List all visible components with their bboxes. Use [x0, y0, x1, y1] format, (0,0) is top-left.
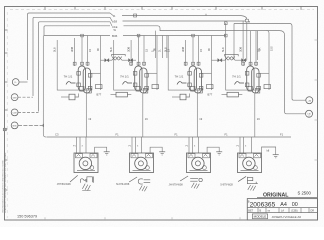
relay K2 pin box lower-left 85: [133, 83, 137, 87]
connector plug circle D.: [12, 79, 19, 86]
relay K3 right vertical wire: [211, 36, 213, 91]
relay K3 pin box lower-left 85: [188, 83, 192, 87]
relay K4 right vertical wire: [268, 60, 270, 90]
relay K1 bottom pin box left: [80, 87, 85, 92]
relay K3 coil curve symbol: [177, 82, 187, 85]
relay K2 right vertical wire: [156, 36, 158, 91]
relay K3 pin box upper-right 30: [199, 74, 203, 78]
pump M4 feed wires from bus: [239, 137, 241, 153]
connector plug circle B36: [11, 122, 18, 129]
relay K4 top pin squares: [242, 62, 245, 65]
relay K3 feed wire right: [198, 36, 200, 67]
relay K4 feed wire right: [255, 31, 257, 66]
title block frame: [247, 199, 317, 220]
pump M4 terminal box left: [239, 154, 246, 158]
pump M3 solenoid symbol: [190, 179, 198, 182]
border zone ticks left: [5, 29, 8, 31]
pump M1 solenoid symbol: [81, 177, 94, 183]
relay K4 coil curve symbol: [235, 82, 245, 85]
relay K1 feed wire left: [74, 38, 76, 66]
bus wire D. : right run to corner: [122, 16, 247, 20]
pump M4 ground branch: [262, 147, 276, 154]
relay K3 coil lobe left: [189, 66, 196, 91]
relay K2 pin box upper-left 86: [133, 72, 137, 76]
relay K3 pin box lower-right 87: [199, 86, 203, 90]
bus wire B36 : left riser: [44, 26, 110, 36]
relay K4 stub to right vertical: [260, 72, 270, 74]
lamp circle L30: [306, 110, 313, 117]
relay K1 stub to right vertical: [91, 72, 101, 74]
relay K3 coil lobe right: [194, 68, 201, 93]
bowtie connector: [105, 59, 109, 62]
junction box right of D arc: [245, 19, 248, 22]
relay K4 pin box upper-right 30: [257, 74, 261, 78]
relay K2 pin box lower-right 87: [145, 86, 149, 90]
relay K4 drop wire to pump: [254, 93, 256, 137]
bus wire C1E : left riser: [39, 22, 111, 112]
pump M3 motor inner circle: [195, 161, 200, 166]
pump M1 ground branch: [95, 147, 107, 153]
wire: [122, 59, 128, 61]
relay K3 stub to right vertical: [202, 72, 212, 74]
wire: [109, 59, 112, 61]
border zone ticks bottom: [44, 217, 46, 220]
relay K3 top pin squares: [184, 62, 187, 65]
relay K1 coil lobe right: [83, 68, 90, 93]
wire: [101, 59, 105, 61]
relay K4 pin box lower-right 87: [257, 86, 261, 90]
pump M2 actuator arrow: [129, 177, 137, 182]
relay K4 bottom pin box right: [255, 89, 259, 94]
pump M3 ground branch: [207, 147, 219, 153]
pump M4 housing box: [238, 153, 262, 173]
bus wire b38 : left riser: [33, 17, 110, 96]
pump M3 ground symbol: [216, 151, 222, 153]
small component box with leads (C) group3: [222, 94, 228, 96]
connector plug circle C1E: [11, 109, 18, 116]
riser at x=234 to terminal chain: [233, 24, 235, 60]
pump M4 actuator arrow: [238, 176, 246, 181]
relay K4 coil lobe left: [247, 66, 254, 91]
pump M3 baseline inside: [190, 170, 208, 172]
branch drop 3A: [257, 31, 259, 60]
wire: [222, 59, 225, 61]
bus wire B36 left run y=35.5: [44, 35, 110, 37]
pump M4 aux circle: [254, 166, 258, 170]
relay K2 feed wire left: [130, 40, 132, 66]
pump M4 ground symbol: [273, 154, 279, 156]
junction box on D wire: [134, 14, 137, 17]
pump M4 hatch marks: [248, 185, 256, 191]
pump M3 housing box: [187, 153, 211, 173]
pump M1 baseline inside: [77, 170, 95, 172]
relay K3 terminal box 81: [207, 85, 214, 89]
relay K1 connector symbol below: [61, 96, 69, 98]
pump M1 ground symbol: [104, 151, 110, 153]
pump M3 terminal box right: [203, 154, 210, 158]
pump M4 solenoid symbol: [247, 177, 257, 184]
pump M3 hatch marks: [191, 183, 199, 189]
relay K2 bottom pin box left: [136, 87, 141, 92]
pump M1 hatch marks: [82, 184, 90, 191]
wire to +30: [292, 97, 306, 100]
pump M2 feed wires from bus: [131, 137, 133, 153]
relay K1 pin box lower-right 87: [88, 86, 92, 90]
small component box with leads (C) group1: [111, 94, 117, 96]
bus wire C1E : right run with corner drops: [124, 26, 280, 31]
relay K1 pin box lower-left 85: [77, 83, 81, 87]
relay K1 terminal box 81: [96, 85, 103, 89]
connector plug circle b38: [11, 94, 18, 101]
relay K4 terminal box 81: [264, 85, 271, 89]
bowtie connector: [242, 59, 246, 62]
bus wire B36 : right run to K4 return: [123, 35, 226, 37]
relay K1 feed wire mid: [81, 36, 83, 67]
wire: [133, 59, 136, 61]
relay K3 drop wire to pump: [196, 93, 198, 137]
relay K3 connector symbol below: [172, 96, 180, 98]
relay K2 bottom pin box right: [143, 89, 148, 94]
relay K4 bottom pin box left: [248, 87, 253, 92]
wire: [212, 59, 218, 61]
relay K2 top pin squares: [130, 62, 133, 65]
junction box on B36 at K2 mid riser: [137, 34, 140, 37]
pump M2 ground branch: [150, 147, 162, 153]
bus wire D. : left riser: [28, 13, 111, 80]
title block row line 2: [247, 212, 317, 214]
relay K1 feed wire right: [87, 36, 89, 67]
pump M1 aux circle: [90, 166, 94, 170]
pump M3 feed wires from bus: [188, 137, 190, 153]
pump M1 housing box: [74, 153, 98, 173]
relay K4 pin box lower-left 85: [245, 83, 249, 87]
relay K1 top pin squares: [73, 62, 76, 65]
terminal chain: [225, 54, 239, 60]
pump M3 terminal box left: [188, 154, 195, 158]
pump M2 terminal box right: [146, 154, 153, 158]
pump M1 terminal box left: [76, 154, 83, 158]
corner drop 15S: [267, 31, 270, 60]
relay K2 coil lobe left: [135, 66, 142, 91]
relay K1 pin box upper-left 86: [77, 72, 81, 76]
MODELE box: [252, 214, 267, 219]
riser from D junction down to K4: [246, 22, 248, 60]
pump M4 motor inner circle: [246, 161, 251, 166]
relay K2 drop wire to pump: [142, 93, 144, 137]
terminal chain: [112, 54, 126, 60]
relay K2 pin box upper-right 30: [145, 74, 149, 78]
bowtie connector: [218, 59, 222, 62]
border zone tick dark left middle: [3, 128, 6, 131]
corner drop to L30 riser: [280, 31, 285, 112]
pump M2 hatch marks: [139, 185, 147, 191]
sheet border inner top line (dashed scan double): [10, 8, 314, 10]
relay K4 feed wire mid: [250, 31, 252, 66]
relay K4 coil lobe right: [252, 68, 259, 93]
junction box on B36 at K3 mid riser: [192, 34, 195, 37]
relay K1 right vertical wire: [100, 36, 102, 91]
risers between K2 and K3: [155, 31, 157, 58]
dash-dot wire to +30 riser: [234, 24, 292, 98]
lamp circle +30: [306, 97, 313, 104]
pump M1 motor circle: [79, 157, 91, 169]
relay K3 feed wire mid: [192, 36, 194, 67]
riser from B36 bus down left side to C3 arc: [43, 36, 46, 138]
pump M2 ground symbol: [159, 151, 165, 153]
pump M3 aux circle: [203, 166, 207, 170]
relay K4 left return wire: [226, 23, 260, 90]
relay K1 pin box upper-right 30: [88, 74, 92, 78]
pump M2 aux circle: [146, 166, 150, 170]
pump M3 actuator arrow: [180, 176, 188, 181]
relay K1 coil curve symbol: [66, 82, 76, 85]
pump M2 terminal box left: [131, 154, 138, 158]
wire from plug B36: [18, 124, 43, 126]
wire: [235, 59, 241, 61]
pump M2 motor circle: [135, 157, 147, 169]
title block cells row: [257, 208, 259, 213]
relay K2 feed wire mid: [138, 36, 140, 67]
relay K3 bottom pin box right: [198, 89, 203, 94]
relay K1 drop wire to pump: [85, 93, 87, 137]
junction boxes on K4 return: [224, 22, 227, 25]
wire from plug C1E: [18, 111, 39, 113]
wire from plug b38: [18, 96, 33, 98]
pump M1 actuator arrow: [70, 175, 78, 182]
relay K4 feed wire left: [242, 21, 244, 66]
junction tick on D wire: [205, 14, 207, 16]
relay K2 coil curve symbol: [123, 82, 133, 85]
relay K2 terminal box 81: [152, 85, 159, 89]
relay K2 coil lobe right: [140, 68, 147, 93]
pump M3 solenoid circle: [199, 178, 202, 181]
sheet border inner left line: [6, 12, 8, 218]
relay K2 stub to right vertical: [148, 72, 158, 74]
border zone ticks top: [44, 7, 46, 10]
pump M1 feed wires from bus: [76, 137, 78, 153]
pump M4 terminal box right: [254, 154, 261, 158]
pump M2 baseline inside: [133, 170, 151, 172]
relay K1 left return wire: [57, 40, 91, 90]
bowtie connector: [129, 59, 133, 62]
relay K1 coil lobe left: [78, 66, 85, 91]
wire to L30: [285, 112, 306, 114]
relay K3 feed wire left: [185, 40, 187, 66]
relay K3 left return wire: [168, 36, 202, 91]
pump M1 motor inner circle: [83, 161, 88, 166]
junction box on B36 at K1 mid riser: [81, 34, 84, 37]
wire from plug D.: [19, 81, 27, 83]
title block row line 1: [247, 207, 317, 209]
pump M4 motor circle: [243, 157, 255, 169]
relay K4 pin box upper-left 86: [245, 72, 249, 76]
pump M2 housing box: [130, 153, 154, 173]
relay K2 feed wire right: [143, 36, 145, 67]
pump M2 motor inner circle: [138, 161, 143, 166]
pump M1 terminal box right: [90, 154, 97, 158]
pump M3 motor circle: [192, 157, 204, 169]
main horizontal wire C3/F1: [47, 136, 292, 138]
border zone ticks right: [315, 39, 318, 41]
junction tick where plug wire meets riser: [42, 124, 44, 127]
relay K3 pin box upper-left 86: [188, 72, 192, 76]
bus wire b38 : right run: [123, 20, 246, 22]
relay K3 bottom pin box left: [191, 87, 196, 92]
relay K2 left return wire: [114, 40, 148, 90]
pump M2 solenoid symbol: [138, 179, 150, 184]
pump M4 baseline inside: [241, 170, 259, 172]
relay K1 bottom pin box right: [87, 89, 92, 94]
wire: [246, 59, 247, 61]
